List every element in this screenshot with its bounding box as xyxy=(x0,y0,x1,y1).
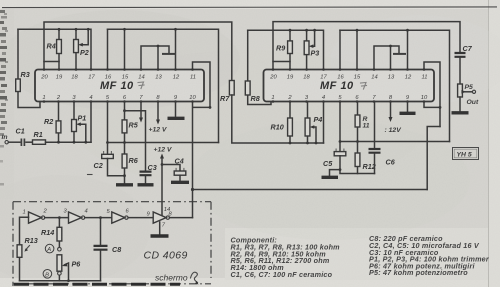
wire oscillator bottom xyxy=(20,280,101,282)
node In xyxy=(2,134,9,144)
wire pin10 stage2 step xyxy=(424,102,440,108)
node B terminal xyxy=(43,270,52,279)
wire pin5 drop xyxy=(107,102,109,143)
trimmer P2 xyxy=(74,28,90,70)
power +12V supply node (C4 feed) xyxy=(154,147,173,216)
wire input line stage2 (from R7) xyxy=(232,95,324,143)
wire clock vertical from inverter output xyxy=(192,190,194,218)
capacitor C4 xyxy=(162,157,186,181)
wire pin4 stage2 drop xyxy=(323,102,325,144)
wire pins 13-14 tie stage2 xyxy=(374,45,406,70)
wire pin11 step xyxy=(193,62,211,107)
wire clock horizontal link to stage2 xyxy=(193,189,428,191)
inverter U3B xyxy=(64,209,88,224)
inverter U3D xyxy=(147,207,173,229)
wire pin20 stage2 drop xyxy=(273,62,290,70)
ground C5 xyxy=(322,176,339,179)
resistor R5 xyxy=(122,102,139,144)
inverter U3A xyxy=(23,209,48,224)
capacitor C3 xyxy=(140,163,157,183)
wire rail A stage2 (pin20 to C7) xyxy=(273,22,460,62)
resistor R4 xyxy=(47,28,62,70)
capacitor C8 xyxy=(94,216,122,281)
components list right column xyxy=(369,234,490,277)
ground C4 xyxy=(171,181,189,184)
capacitor C5 xyxy=(323,142,375,176)
capacitor C2 xyxy=(88,141,125,176)
power +12V pin8 arrow xyxy=(157,102,159,121)
wire pin6 branch to C3 xyxy=(125,111,146,171)
label schermo + arrow xyxy=(155,272,199,284)
wire inv1-inv2 xyxy=(45,217,69,219)
trimmer P6 xyxy=(57,255,81,282)
wire inv3-inv4 xyxy=(128,217,153,219)
ground pin9 xyxy=(175,102,177,117)
wire rail B stage1 xyxy=(18,29,91,69)
power +12V pin7 arrow xyxy=(140,102,142,119)
wire rail B stage2 xyxy=(248,30,324,69)
resistor R12 xyxy=(355,142,376,174)
wire pins 13-14 tie xyxy=(141,45,176,70)
wire pin15 stage2 to rail B xyxy=(356,30,358,69)
ground C3 xyxy=(138,183,154,186)
ground inv4 pin7 xyxy=(159,222,161,234)
resistor R7 xyxy=(220,81,234,104)
resistor R10 xyxy=(271,102,293,145)
trimmer P1 xyxy=(72,102,88,144)
power +12V pin8 stage2 arrow xyxy=(390,102,392,118)
wire inv2-inv3 xyxy=(85,217,112,219)
resistor R13 xyxy=(17,217,38,280)
resistor R1 xyxy=(33,130,92,144)
resistor R3 xyxy=(16,29,40,107)
trimmer P4 xyxy=(305,102,322,145)
wire pin5 stage2 drop xyxy=(339,102,341,142)
resistor R2 xyxy=(44,102,61,144)
resistor R14 xyxy=(41,216,62,247)
capacitor C7 xyxy=(455,44,473,84)
wire pin15 to rail B xyxy=(124,29,126,69)
wire clock link bar xyxy=(427,127,440,190)
wire pin11 stage2 step xyxy=(424,62,440,127)
resistor R11 xyxy=(355,102,370,143)
wire pin20 drop xyxy=(44,62,59,70)
ground P5 xyxy=(452,111,469,114)
IC U1 MF10 xyxy=(35,68,204,103)
resistor R8 xyxy=(245,30,271,104)
inverter U3C xyxy=(107,209,130,224)
wire pin10 step xyxy=(193,102,211,190)
capacitor C6 xyxy=(369,102,396,174)
top page frame line xyxy=(2,6,497,9)
wire rail A stage1 (pin20 to R7 top) xyxy=(44,22,232,81)
potentiometer P5 xyxy=(458,84,479,111)
label YH5 box xyxy=(453,148,479,160)
wire inv4 output xyxy=(170,217,193,219)
ground C2 R6 xyxy=(116,183,133,186)
wire pin16 to rail B xyxy=(107,29,109,69)
trimmer P3 xyxy=(304,29,319,70)
wire pin4 drop xyxy=(90,102,92,143)
wire pin12 stage2 to rail B xyxy=(407,30,409,69)
wire L1 clock line stage1 xyxy=(108,142,219,144)
IC U2 MF10 xyxy=(264,68,435,103)
wire pin16 stage2 to rail B xyxy=(339,30,341,69)
resistor R6 xyxy=(122,143,139,184)
shield box (schermo) dash-dot border xyxy=(13,202,211,286)
node A terminal xyxy=(45,244,61,253)
components list left column xyxy=(231,236,341,279)
wire L2 clock line stage2 xyxy=(340,141,450,143)
wire pin12 to rail B xyxy=(175,29,177,69)
capacitor C1 xyxy=(8,127,32,147)
resistor R9 xyxy=(276,29,292,70)
ground pin9 stage2 xyxy=(407,102,409,112)
